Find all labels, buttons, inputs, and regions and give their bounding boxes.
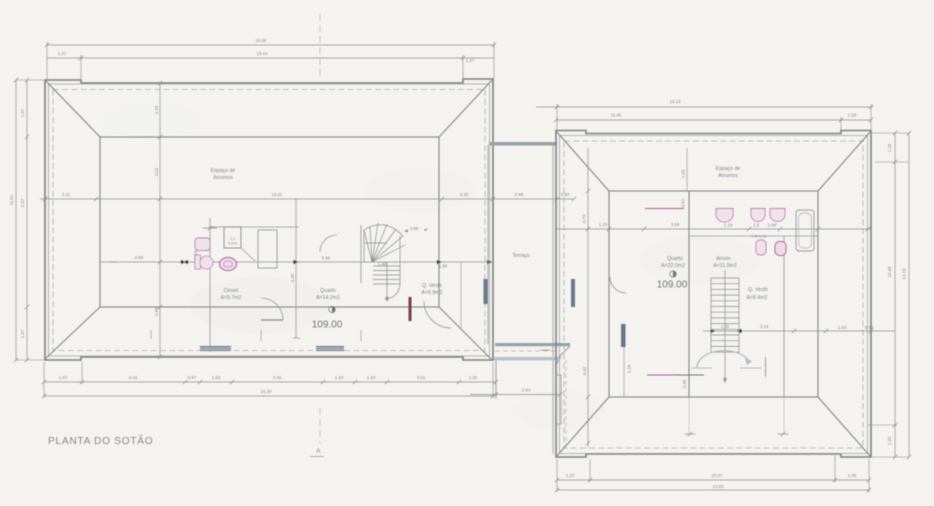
section line A (top): [319, 14, 321, 80]
svg-text:1.26: 1.26: [469, 375, 478, 380]
labels mid dim row: [62, 192, 570, 197]
terraço bottom band 2 (light): [494, 357, 558, 360]
rp extension lines down from walls: [689, 397, 784, 434]
svg-text:4.40: 4.40: [290, 273, 295, 282]
scan mottle blobs: [100, 102, 760, 430]
terraço bottom dim 2.94: [470, 361, 562, 397]
door arc rp left wall: [610, 277, 626, 293]
left plan inner wall face: [49, 84, 490, 356]
terraço dashed line: [495, 350, 560, 352]
svg-text:3.18: 3.18: [760, 324, 769, 329]
rp right dim column 1: [868, 131, 909, 459]
svg-text:1.47: 1.47: [59, 375, 68, 380]
hip diagonal top-right: [439, 79, 493, 137]
left plan mid dimension row y=199: [40, 197, 576, 201]
svg-text:5.56: 5.56: [322, 256, 331, 261]
svg-text:2.15: 2.15: [154, 105, 159, 114]
hip diagonal rp bottom-left: [556, 397, 609, 457]
right plan inner wall face: [560, 136, 868, 454]
hip diagonal bottom-left: [44, 307, 100, 360]
hip diagonal top-left: [45, 80, 100, 137]
svg-text:A: A: [316, 448, 321, 455]
svg-text:A=5.7m2: A=5.7m2: [221, 295, 242, 301]
left plan dashed eave line: [53, 90, 485, 351]
svg-text:2.32: 2.32: [460, 192, 469, 197]
labels mid dim row 262: [135, 250, 448, 268]
svg-text:A=8.4m2: A=8.4m2: [747, 295, 768, 301]
door stub ticks below inner wall: [151, 330, 361, 341]
extension cross ticks below rp rooms: [685, 432, 788, 436]
toilet (right, pink): [756, 240, 766, 255]
left plan outer wall: [45, 79, 493, 360]
svg-text:Terraço: Terraço: [512, 253, 529, 259]
svg-text:A=14.2m2: A=14.2m2: [316, 295, 340, 301]
door stub wall: [765, 357, 767, 377]
door arc closet bottom: [261, 298, 283, 320]
rp interior wall x=784: [783, 236, 785, 397]
left plan mid dimension row y=262: [101, 260, 493, 264]
top dimension row 2 (1.47 / 15.44 / 1.47): [47, 55, 494, 83]
svg-text:0.45: 0.45: [682, 379, 687, 388]
svg-text:2.11: 2.11: [62, 192, 71, 197]
svg-text:1.47: 1.47: [466, 58, 475, 63]
terraço bottom chamfer: [555, 346, 570, 366]
svg-text:1.5: 1.5: [753, 223, 760, 228]
rp bottom dimension row 1: [555, 455, 871, 492]
rp mid dimension row y=229: [556, 227, 871, 231]
svg-text:3.03: 3.03: [154, 167, 159, 176]
door arc g.vestir: [424, 301, 451, 328]
rp top dimension row 1 (15.13): [536, 104, 873, 131]
svg-text:2.98: 2.98: [768, 223, 777, 228]
svg-text:13.21: 13.21: [272, 192, 284, 197]
svg-text:10.37: 10.37: [712, 473, 724, 478]
svg-text:0.86: 0.86: [135, 255, 144, 260]
svg-text:0.6x2: 0.6x2: [228, 242, 237, 246]
interior dim line x=210: [209, 218, 211, 352]
window bar left-plan right wall: [484, 279, 488, 304]
svg-text:PLANTA DO SOTÃO: PLANTA DO SOTÃO: [48, 434, 153, 447]
toilet (pink): [195, 255, 213, 269]
svg-text:Arrumos: Arrumos: [213, 175, 233, 181]
svg-text:3.94: 3.94: [671, 222, 680, 227]
svg-text:Q. Vestir: Q. Vestir: [748, 287, 768, 293]
rp window bar interior: [621, 324, 626, 347]
svg-text:16.06: 16.06: [256, 38, 268, 43]
door leaf closet: [261, 319, 283, 321]
svg-text:1.20: 1.20: [367, 375, 376, 380]
dim 3.98 with arrows (stairs top right): [404, 226, 428, 233]
dark line continuation: [676, 374, 704, 376]
level marker symbol (right): [670, 271, 676, 277]
labels top row 2: [58, 51, 475, 63]
skylight bar 1: [200, 346, 231, 351]
labels rp mid row: [599, 222, 777, 228]
dashed vertical below terraço: [565, 360, 567, 445]
interior dim line x=296 (4.40): [295, 199, 297, 338]
svg-text:16.20: 16.20: [261, 389, 273, 394]
svg-text:10.49: 10.49: [887, 266, 892, 278]
svg-text:Espaço de: Espaço de: [211, 168, 236, 174]
rp bathroom wall y=236: [689, 235, 818, 237]
svg-text:1.86: 1.86: [439, 264, 448, 269]
bidet (right, pink): [775, 242, 786, 256]
labels rp bottom row 1: [566, 473, 857, 478]
section mark A: [310, 448, 324, 457]
bathtub: [796, 210, 814, 251]
svg-text:3.61: 3.61: [417, 375, 426, 380]
svg-text:1.18: 1.18: [724, 223, 733, 228]
svg-text:Quarto: Quarto: [320, 288, 336, 294]
svg-text:6.57: 6.57: [20, 198, 25, 207]
hip diagonal rp top-right: [818, 131, 871, 191]
svg-text:0.40 0.52: 0.40 0.52: [751, 235, 767, 239]
step line left of right plan wall: [540, 349, 551, 351]
interior wall x=461 g.vestir: [460, 262, 462, 330]
bottom dimension row 1: [42, 360, 498, 399]
hip diagonal rp top-left: [556, 131, 609, 191]
labels rp row 331: [721, 324, 874, 330]
svg-text:A=6.9m2: A=6.9m2: [422, 290, 443, 296]
svg-text:1.20: 1.20: [335, 375, 344, 380]
interior wall bathroom north: [210, 226, 299, 228]
left dim column 2: [25, 78, 29, 362]
svg-text:11.01: 11.01: [9, 194, 14, 205]
svg-text:4.18: 4.18: [129, 375, 138, 380]
svg-text:A=22.0m2: A=22.0m2: [661, 263, 685, 269]
terraço top band: [489, 142, 557, 146]
svg-text:3.98: 3.98: [410, 226, 419, 231]
rp interior line x=624: [623, 324, 625, 397]
svg-text:13.93: 13.93: [713, 484, 725, 489]
washbasin 2 (pink): [751, 209, 765, 222]
hip diagonal bottom-right: [439, 307, 492, 360]
svg-text:2.48: 2.48: [154, 307, 159, 316]
window bar right-plan left wall: [571, 279, 575, 307]
svg-text:1.43: 1.43: [681, 169, 686, 178]
svg-text:1.25: 1.25: [887, 436, 892, 445]
svg-text:A=11.0m2: A=11.0m2: [713, 263, 737, 269]
dark red wall segment g.vestir: [409, 297, 412, 321]
svg-text:1.20: 1.20: [566, 473, 575, 478]
top dimension row 1 (16.06): [45, 42, 496, 80]
svg-text:1.3: 1.3: [230, 237, 235, 241]
svg-text:1.47: 1.47: [58, 51, 67, 56]
svg-text:11.46: 11.46: [611, 113, 622, 118]
svg-text:1.47: 1.47: [20, 329, 25, 338]
skylight bar 2: [316, 346, 344, 351]
svg-text:Quarto: Quarto: [667, 256, 683, 262]
right plan outer wall: [556, 131, 871, 458]
magenta line (right plan): [647, 374, 676, 376]
svg-text:15.44: 15.44: [257, 51, 269, 56]
rp dim line x=588: [586, 148, 590, 447]
svg-text:0.93: 0.93: [865, 325, 874, 330]
svg-text:9.42: 9.42: [582, 366, 587, 375]
right plan attic knee-wall rectangle: [609, 191, 818, 397]
labels rp right col 1: [887, 143, 892, 445]
svg-text:1.25: 1.25: [887, 143, 892, 152]
labels left col 2: [20, 108, 25, 338]
labels vertical dim x=160: [154, 105, 295, 316]
rp dim line x=687 upper: [681, 148, 688, 207]
svg-text:1.93: 1.93: [212, 375, 221, 380]
svg-text:1.47: 1.47: [20, 108, 25, 117]
svg-text:1.50: 1.50: [838, 325, 847, 330]
svg-text:2.94: 2.94: [522, 388, 531, 393]
svg-text:109.00: 109.00: [657, 280, 688, 291]
washbasin 3 (pink): [770, 209, 785, 222]
wardrobe rectangle: [258, 230, 277, 268]
rp dimension row y=331: [703, 329, 895, 333]
svg-text:3.40: 3.40: [273, 375, 282, 380]
hip diagonal rp bottom-right: [818, 397, 871, 457]
rp bottom dimension row 2 (13.93): [555, 488, 871, 492]
washbasin (pink): [195, 238, 210, 251]
turn arrow (blue-gray): [691, 351, 762, 368]
svg-text:Q. Vestir: Q. Vestir: [422, 283, 442, 289]
labels dim x=588: [582, 214, 588, 375]
rp interior wall x=689: [688, 191, 690, 397]
counter line magenta (bathroom): [645, 208, 684, 210]
labels bottom row 1: [59, 375, 478, 380]
washbasin 1 (pink): [716, 209, 733, 223]
rp top dimension row 2 (11.46 / 1.28): [554, 117, 873, 134]
tick on x=210: [203, 226, 217, 230]
svg-text:4.79: 4.79: [582, 214, 587, 223]
right plan dashed eave line: [564, 141, 863, 448]
terraço left wall: [487, 145, 489, 344]
winder stairs (left plan): [364, 223, 405, 302]
svg-text:1.16: 1.16: [627, 364, 632, 373]
terraço bottom band 1: [495, 343, 570, 346]
interior wall x=361 stairs: [360, 225, 362, 283]
svg-text:15.13: 15.13: [670, 99, 682, 104]
svg-text:Arrumos: Arrumos: [718, 173, 738, 179]
svg-text:0.47: 0.47: [188, 375, 197, 380]
rp right dim column 2 (13.19): [907, 131, 911, 459]
svg-text:1.05: 1.05: [848, 473, 857, 478]
svg-text:0.61: 0.61: [681, 198, 686, 207]
shower cabin (pink): [224, 227, 255, 261]
bottom dimension row 2 (16.20): [42, 394, 495, 398]
svg-text:Closet: Closet: [224, 288, 239, 294]
svg-text:1.28: 1.28: [848, 113, 857, 118]
terraço right wall line: [552, 143, 554, 454]
svg-text:0.63: 0.63: [561, 192, 570, 197]
section line A (bottom): [319, 408, 321, 444]
left dim column 1 (11.01): [14, 78, 45, 362]
vertical dim line x=160: [158, 81, 162, 359]
svg-text:Arrum.: Arrum.: [716, 256, 732, 262]
svg-text:109.00: 109.00: [312, 320, 343, 331]
svg-text:2.98: 2.98: [515, 192, 524, 197]
left plan attic knee-wall rectangle: [100, 137, 439, 307]
level marker symbol (left): [329, 306, 335, 312]
svg-text:1.33: 1.33: [599, 222, 608, 227]
ladder stairs (right plan): [711, 270, 739, 383]
labels rp top row 2: [611, 113, 857, 118]
svg-text:13.19: 13.19: [902, 268, 907, 280]
door arc quarto top: [320, 235, 337, 252]
rp left wall pilaster jog: [557, 375, 561, 424]
svg-text:Espaço de: Espaço de: [716, 166, 741, 172]
bidet (pink): [220, 258, 237, 271]
